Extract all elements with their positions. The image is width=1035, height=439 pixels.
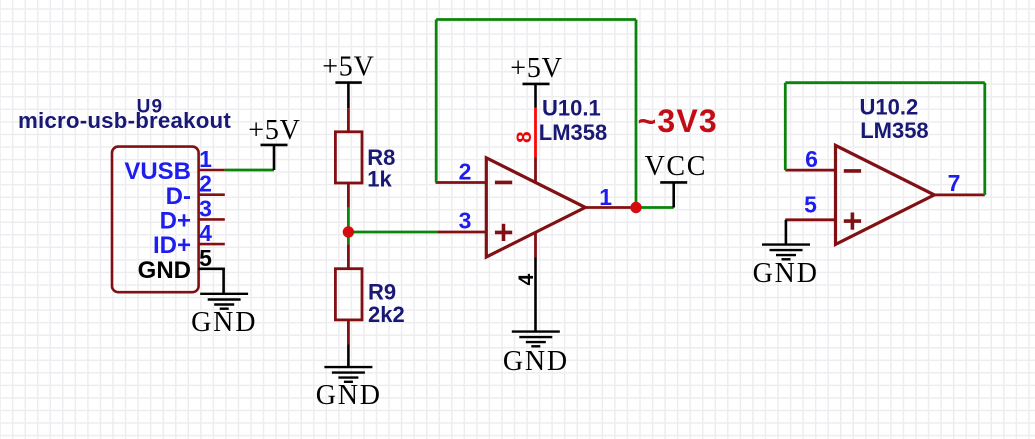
svg-text:4: 4: [199, 220, 212, 246]
svg-text:~3V3: ~3V3: [638, 103, 718, 139]
svg-text:U10.1: U10.1: [542, 96, 601, 121]
svg-text:GND: GND: [191, 307, 257, 338]
svg-text:D+: D+: [160, 208, 191, 235]
svg-text:R9: R9: [368, 279, 396, 304]
svg-text:5: 5: [199, 245, 212, 271]
svg-text:1: 1: [599, 184, 612, 210]
U10.1 pin 8 power pin: [534, 158, 537, 184]
U9 pin 1 stub: [199, 169, 225, 172]
wire feedback U10.1 right: [635, 20, 638, 208]
ground GND (U9): [200, 294, 248, 309]
svg-text:+5V: +5V: [322, 52, 374, 83]
U10.2 plus mark: [844, 213, 861, 230]
wire feedback U10.2 top: [785, 81, 985, 84]
resistor R9: [335, 244, 362, 344]
ground GND (R9): [324, 367, 372, 382]
junction node divider: [343, 226, 354, 237]
svg-text:GND: GND: [753, 258, 819, 289]
svg-text:6: 6: [805, 146, 818, 172]
svg-text:LM358: LM358: [539, 120, 607, 145]
U10.1 minus mark: [495, 181, 512, 185]
svg-text:U10.2: U10.2: [860, 95, 919, 120]
resistor R8: [335, 108, 362, 208]
connector U9: [112, 147, 199, 293]
svg-text:1k: 1k: [367, 167, 392, 192]
U9 pin 2 stub: [199, 193, 225, 196]
op-amp U10.2: [836, 145, 935, 244]
U9 pin 3 stub: [199, 218, 225, 221]
svg-text:2: 2: [199, 171, 212, 197]
svg-text:GND: GND: [316, 380, 382, 411]
wire R8 to junction: [347, 208, 350, 232]
svg-text:GND: GND: [138, 257, 191, 284]
wire pin5 to GND: [224, 269, 225, 294]
U10.2 minus mark: [844, 169, 861, 173]
U10.1 pin 2 stub: [436, 181, 487, 184]
wire feedback U10.1 left: [435, 20, 438, 183]
ground GND (U10.1): [512, 332, 560, 347]
wire +5V to pin 8 (red): [534, 108, 537, 158]
U9 pin 5 stub: [199, 267, 225, 270]
junction node output: [630, 202, 641, 213]
svg-text:2k2: 2k2: [368, 302, 405, 327]
wire junction to pin3: [348, 231, 437, 234]
power +5V (R8): [335, 83, 361, 109]
power VCC: [660, 182, 687, 207]
U10.1 plus mark: [495, 224, 512, 241]
U10.1 pin 3 stub: [437, 231, 486, 234]
svg-text:4: 4: [515, 273, 538, 285]
wire feedback U10.2 right: [983, 83, 986, 195]
svg-text:2: 2: [459, 158, 472, 184]
svg-text:+5V: +5V: [248, 115, 300, 146]
wire feedback U10.2 left: [784, 83, 787, 170]
svg-text:GND: GND: [503, 346, 569, 377]
U10.1 pin 4 power pin: [534, 232, 537, 258]
svg-text:ID+: ID+: [153, 232, 191, 259]
svg-text:VUSB: VUSB: [124, 158, 191, 185]
ground GND (U10.2): [762, 245, 810, 260]
U10.2 pin 6 stub: [785, 169, 835, 172]
wire R9 to GND: [347, 345, 350, 368]
U10.1 output pin 1 stub: [585, 206, 636, 209]
svg-text:LM358: LM358: [860, 118, 928, 143]
svg-text:7: 7: [948, 170, 961, 196]
U10.2 pin 5 stub: [785, 218, 835, 221]
svg-text:8: 8: [513, 131, 536, 143]
wire pin 4 to GND: [534, 258, 537, 332]
svg-text:3: 3: [459, 207, 472, 233]
U10.2 output pin 7 stub: [934, 193, 985, 196]
svg-text:+5V: +5V: [510, 53, 562, 84]
U9 pin 4 stub: [199, 243, 225, 246]
wire feedback U10.1 top: [436, 18, 636, 21]
wire junction to VCC: [636, 206, 674, 209]
wire pin 5 to GND: [785, 220, 788, 245]
op-amp U10.1: [486, 158, 585, 257]
wire junction to R9: [347, 232, 350, 244]
svg-text:micro-usb-breakout: micro-usb-breakout: [18, 108, 231, 133]
svg-text:3: 3: [199, 195, 212, 221]
svg-text:5: 5: [804, 192, 817, 218]
wire pin1 to +5V: [225, 169, 274, 172]
power +5V (U9): [261, 145, 288, 170]
svg-text:D-: D-: [166, 183, 191, 210]
svg-text:1: 1: [199, 146, 212, 172]
power +5V (U10.1): [523, 84, 550, 108]
svg-text:VCC: VCC: [645, 151, 707, 182]
